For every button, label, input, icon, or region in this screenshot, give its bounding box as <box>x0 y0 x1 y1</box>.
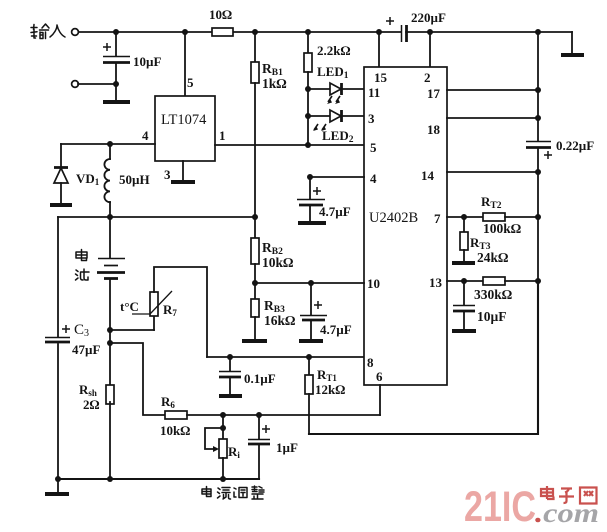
junction pin1/LED column <box>305 142 311 148</box>
battery 电池 <box>97 217 125 386</box>
svg-text:2Ω: 2Ω <box>83 397 100 412</box>
svg-text:16kΩ: 16kΩ <box>264 313 296 328</box>
svg-text:10µF: 10µF <box>477 309 507 324</box>
svg-text:t°C: t°C <box>120 299 139 314</box>
junction Ri bottom <box>220 476 226 482</box>
op-amp U1 LT1074 <box>155 96 215 161</box>
svg-text:10kΩ: 10kΩ <box>262 255 294 270</box>
wire pin15 drop <box>378 32 380 67</box>
resistor RB1 1k + RB2 10k + RB3 16k column <box>251 32 287 238</box>
svg-text:100kΩ: 100kΩ <box>483 221 522 236</box>
wire top rail <box>78 31 572 33</box>
LED1 <box>308 64 364 104</box>
label 电池 battery <box>76 250 90 281</box>
svg-text:18: 18 <box>427 122 441 137</box>
svg-text:1: 1 <box>219 128 226 143</box>
ground LT1074 pin3 <box>171 180 195 184</box>
watermark 21IC logo <box>464 483 599 531</box>
junction pin7 rail <box>535 214 541 220</box>
junction 4.7uF-2 top <box>308 280 314 286</box>
wire to R6 <box>110 343 165 415</box>
junction RB1 top <box>252 29 258 35</box>
svg-text:15: 15 <box>374 70 388 85</box>
wire left rail upper <box>57 217 59 337</box>
junction pin2 <box>427 29 433 35</box>
junction lower input <box>113 81 119 87</box>
resistor R6 10k <box>160 394 190 438</box>
svg-text:2: 2 <box>424 70 431 85</box>
svg-text:0.1µF: 0.1µF <box>244 371 276 386</box>
diode VD1 <box>54 144 100 204</box>
junction 0.1uF <box>227 354 233 360</box>
svg-text:330kΩ: 330kΩ <box>474 287 513 302</box>
junction RT1 top <box>306 354 312 360</box>
junction Ri wiper <box>220 425 226 431</box>
svg-text:4: 4 <box>370 171 377 186</box>
svg-text:10kΩ: 10kΩ <box>160 423 190 438</box>
wire pin4 IC <box>310 176 364 178</box>
junction pin14 rail <box>535 169 541 175</box>
wire pin18 <box>447 117 538 119</box>
svg-text:2.2kΩ: 2.2kΩ <box>317 43 350 58</box>
wire pin1 LT1074 <box>215 144 364 146</box>
resistor 10R <box>209 7 233 36</box>
svg-text:13: 13 <box>429 275 443 290</box>
ground VD1 <box>50 203 72 207</box>
capacitor 10uF right <box>453 281 507 329</box>
svg-text:.com: .com <box>535 498 599 528</box>
svg-text:U2402B: U2402B <box>369 210 418 226</box>
junction pin17 rail <box>535 87 541 93</box>
potentiometer Ri <box>205 415 240 479</box>
junction left rail bottom <box>55 476 61 482</box>
svg-text:10: 10 <box>367 276 380 291</box>
svg-text:0.22µF: 0.22µF <box>556 138 594 153</box>
capacitor 1uF <box>248 415 298 479</box>
wire pin10 <box>255 282 364 284</box>
junction RB2 bottom / pin10 <box>252 280 258 286</box>
junction LED2 anode <box>305 113 311 119</box>
junction right rail top <box>535 29 541 35</box>
junction pin4 / inductor <box>107 141 113 147</box>
svg-text:14: 14 <box>421 168 435 183</box>
resistor RT2 100k <box>481 194 538 236</box>
junction pin13 rail <box>535 278 541 284</box>
svg-text:8: 8 <box>367 355 374 370</box>
wire R6 to pin6 <box>187 414 380 416</box>
wire pin17 <box>447 89 538 91</box>
junction LED1 anode <box>305 86 311 92</box>
svg-text:LT1074: LT1074 <box>161 112 207 128</box>
resistor RB3 16k <box>251 298 296 339</box>
svg-text:47µF: 47µF <box>72 342 100 357</box>
IC U2402B <box>364 67 447 385</box>
ground 4.7uF upper <box>298 221 326 225</box>
junction Rsh bottom <box>107 476 113 482</box>
ground main <box>45 479 69 494</box>
junction 4.7uF-1 top <box>307 174 313 180</box>
svg-text:4.7µF: 4.7µF <box>319 204 351 219</box>
wire pin8 row <box>207 356 364 358</box>
LED2 <box>308 110 364 145</box>
junction RT3 top <box>461 214 467 220</box>
svg-text:12kΩ: 12kΩ <box>315 382 345 397</box>
wire pin2 drop <box>429 32 431 67</box>
ground 0.1uF <box>219 394 242 398</box>
junction 2.2k top <box>305 29 311 35</box>
ground RB3 <box>242 339 267 343</box>
resistor Rsh 2R <box>79 382 114 479</box>
resistor 330k <box>474 277 538 302</box>
node input terminal upper <box>72 29 79 36</box>
svg-text:24kΩ: 24kΩ <box>477 250 509 265</box>
capacitor 10uF input <box>103 32 161 100</box>
capacitor 0.1uF <box>219 357 276 394</box>
thermistor R7 <box>120 267 207 357</box>
wire pin6 <box>379 385 381 415</box>
wire pin3 <box>182 161 184 180</box>
svg-text:3: 3 <box>368 111 375 126</box>
capacitor 4.7uF upper <box>297 177 351 221</box>
svg-text:11: 11 <box>368 85 380 100</box>
svg-text:6: 6 <box>376 369 383 384</box>
svg-text:1µF: 1µF <box>276 440 298 455</box>
junction pin15 <box>376 29 382 35</box>
wire pin7 <box>447 216 483 218</box>
ground 10uF <box>452 329 476 333</box>
ground RT3 <box>452 261 475 265</box>
svg-text:1kΩ: 1kΩ <box>262 76 287 91</box>
junction 1uF top <box>256 412 262 418</box>
svg-text:3: 3 <box>164 167 171 182</box>
junction battery/RT bottom wire <box>107 327 113 333</box>
wire left rail lower <box>57 344 59 479</box>
svg-text:17: 17 <box>427 86 441 101</box>
junction RB1/RB2 mid <box>252 214 258 220</box>
junction top rail / 10uF <box>113 29 119 35</box>
ground top right <box>561 32 584 55</box>
wire lower input <box>78 83 116 85</box>
ground 4.7uF lower <box>299 339 323 343</box>
wire inductor bottom rail <box>58 216 255 218</box>
svg-text:10Ω: 10Ω <box>209 7 232 22</box>
junction battery/R6 branch <box>107 340 113 346</box>
wire pin4 LT1074 <box>61 143 155 145</box>
wire pin13 <box>447 280 483 282</box>
capacitor 220uF top <box>386 10 446 42</box>
wire bottom long run <box>309 282 538 434</box>
junction 10uF top <box>461 278 467 284</box>
junction Ri top <box>220 412 226 418</box>
capacitor 0.22uF <box>526 138 594 159</box>
wire bottom rail left <box>58 478 259 480</box>
wire RT bottom link <box>110 329 154 331</box>
ground input cap <box>103 100 130 104</box>
svg-text:4: 4 <box>142 128 149 143</box>
resistor 2.2k LED feed <box>304 32 350 145</box>
wire pin5 drop LT1074 <box>184 32 186 96</box>
svg-text:7: 7 <box>434 211 441 226</box>
node input terminal lower <box>72 81 79 88</box>
svg-text:5: 5 <box>370 140 377 155</box>
inductor L1 50uH <box>104 144 149 217</box>
svg-text:220µF: 220µF <box>411 10 446 25</box>
capacitor C3 47uF <box>45 322 100 357</box>
resistor RB2 10k <box>251 238 294 299</box>
junction pin18 rail <box>535 115 541 121</box>
junction inductor bottom <box>107 214 113 220</box>
svg-text:5: 5 <box>187 75 194 90</box>
resistor RT3 24k <box>460 217 509 265</box>
svg-text:50µH: 50µH <box>119 172 150 187</box>
wire right rail <box>537 32 539 434</box>
junction pin5 <box>182 29 188 35</box>
label 输入 (input) <box>31 24 65 39</box>
capacitor 4.7uF lower <box>300 283 352 339</box>
svg-text:10µF: 10µF <box>133 54 161 69</box>
resistor RT1 12k <box>305 357 345 434</box>
label 电流调整 current adjust <box>202 486 264 499</box>
svg-text:4.7µF: 4.7µF <box>320 322 352 337</box>
wire pin14 <box>447 171 538 173</box>
svg-text:21IC: 21IC <box>464 483 536 531</box>
